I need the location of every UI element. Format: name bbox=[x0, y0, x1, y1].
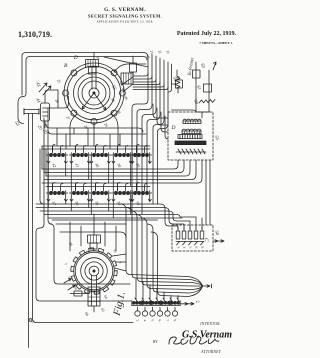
wire battery to circle bbox=[45, 90, 58, 103]
wire right cluster joins bbox=[172, 110, 210, 118]
rim labels bbox=[54, 55, 150, 130]
wire horizontals below B bbox=[46, 124, 146, 134]
dashed box D bbox=[168, 112, 213, 160]
arrow up right bbox=[213, 62, 216, 70]
wire bbox=[48, 108, 130, 284]
footer inventor block bbox=[153, 322, 232, 354]
contact row in D bbox=[178, 149, 205, 154]
wire drops from B rim to bus bbox=[70, 113, 118, 146]
tape guide circles bbox=[135, 311, 140, 316]
tape transmitter body bbox=[132, 301, 136, 305]
right bundle down to bends bbox=[120, 204, 202, 285]
battery 44 bbox=[41, 103, 50, 121]
resistor 60 bbox=[199, 99, 215, 103]
relay 33 bbox=[130, 183, 151, 207]
relay 41 bbox=[69, 145, 90, 169]
wire circleB left down bbox=[48, 90, 68, 108]
left long verticals bbox=[28, 114, 30, 348]
wire battery bottom bbox=[44, 121, 46, 128]
header title text bbox=[88, 7, 162, 25]
dashed box C bbox=[172, 225, 213, 251]
relay 42 bbox=[46, 145, 67, 169]
brush block 55 at B rim bbox=[121, 73, 133, 84]
wire top bundle bends bbox=[132, 53, 148, 151]
jack bar 54 bbox=[24, 110, 39, 114]
brush block on shaft bbox=[86, 60, 99, 68]
hatched bar in D bbox=[178, 135, 202, 139]
component 63 bbox=[193, 70, 201, 78]
vertical feeds row2 bbox=[53, 183, 137, 190]
signature bbox=[169, 336, 219, 344]
arrow 5 pointers bbox=[64, 279, 76, 291]
brush bar 66 bbox=[70, 293, 87, 295]
svg-text:ATTORNEY: ATTORNEY bbox=[200, 350, 221, 354]
wire rim drops A bbox=[70, 222, 116, 251]
stubs to circles bbox=[138, 307, 176, 311]
A shaft down bbox=[92, 275, 97, 306]
cable converge arrow bbox=[203, 284, 212, 288]
wire fan block to bundle bbox=[133, 64, 172, 92]
wire second top bbox=[24, 57, 148, 97]
svg-text:D: D bbox=[171, 125, 176, 131]
wire rim right to bundle bbox=[114, 64, 146, 92]
solid bar in D bbox=[175, 141, 206, 145]
printer rail wires bbox=[196, 62, 209, 112]
relay 35 bbox=[89, 183, 110, 207]
svg-text:SECRET SIGNALING SYSTEM.: SECRET SIGNALING SYSTEM. bbox=[88, 14, 162, 19]
relay 37 bbox=[46, 183, 67, 207]
relay 38 bbox=[130, 145, 151, 169]
wire bundle b5 bbox=[153, 60, 164, 150]
svg-text:G.S.Vernam: G.S.Vernam bbox=[182, 330, 232, 341]
wire bundle b6 bbox=[158, 62, 169, 150]
svg-text:G. S. VERNAM.: G. S. VERNAM. bbox=[104, 7, 146, 13]
wire left vertical x40 bbox=[40, 149, 44, 204]
distributor B outer rim bbox=[64, 63, 124, 123]
brush arm radial bbox=[82, 93, 106, 110]
wire top long bbox=[22, 53, 143, 96]
wire row2 pin drops bbox=[48, 202, 130, 218]
verticals through rows bbox=[132, 150, 158, 214]
wire bundle b3 bbox=[142, 56, 156, 150]
wire shaft A up bbox=[93, 214, 95, 218]
wire inter-row verticals bbox=[48, 164, 130, 190]
coil row1 in D bbox=[183, 119, 201, 121]
component 61 62 bbox=[204, 84, 212, 92]
relay row 2 bbox=[46, 183, 151, 207]
circle pin labels bbox=[135, 319, 177, 323]
relay 40 bbox=[89, 145, 110, 169]
43 arrows bbox=[39, 83, 51, 95]
rings A bbox=[75, 252, 113, 290]
relay row 1 bbox=[46, 145, 151, 169]
svg-text:D: D bbox=[73, 56, 78, 61]
shaft of B bbox=[92, 67, 96, 89]
rim contact circles bbox=[63, 70, 126, 125]
vertical feeds above row1 bbox=[53, 146, 137, 152]
wire rim stubs A right bbox=[113, 254, 127, 271]
curl at bend bbox=[29, 319, 32, 322]
A top brush bbox=[88, 235, 101, 243]
arrow 58 bbox=[213, 240, 224, 243]
distributor A outer bbox=[74, 251, 115, 292]
relay 36 bbox=[69, 183, 90, 207]
wire bundle b4 bbox=[147, 58, 160, 150]
svg-text:1,310,719.: 1,310,719. bbox=[18, 30, 52, 39]
svg-text:Patented July 22, 1919.: Patented July 22, 1919. bbox=[177, 31, 237, 37]
transmitter arrow bbox=[181, 303, 194, 306]
left mid verticals bbox=[36, 118, 131, 301]
C pin labels bbox=[176, 246, 204, 250]
D box left feed corners bbox=[153, 104, 168, 118]
relay 39 bbox=[111, 145, 132, 169]
coil row2 in D bbox=[182, 129, 201, 131]
wire lower cross buses bbox=[52, 220, 158, 238]
C pins bbox=[178, 227, 202, 231]
right verticals D to C bbox=[206, 160, 210, 225]
transmitter pins bbox=[135, 298, 179, 302]
bundle top labels bbox=[149, 50, 170, 55]
transmitter feeds bbox=[136, 278, 178, 299]
left bracket bbox=[18, 97, 24, 124]
wire drops to relays bbox=[57, 128, 132, 149]
wire 47 diagonal bbox=[104, 54, 152, 150]
relay 34 bbox=[111, 183, 132, 207]
distributor B rings bbox=[74, 73, 115, 114]
wire bbox=[33, 114, 134, 323]
gear teeth bbox=[71, 248, 117, 294]
resistor 46 bbox=[175, 70, 180, 93]
svg-text:INVENTOR.: INVENTOR. bbox=[199, 322, 221, 326]
component 45 bbox=[130, 63, 137, 72]
bus below row 2 bbox=[36, 204, 178, 229]
svg-text:7 SHEETS—SHEET 1.: 7 SHEETS—SHEET 1. bbox=[199, 41, 233, 45]
A labels bbox=[63, 242, 122, 317]
component 59 bbox=[176, 80, 183, 88]
brush 65 bbox=[88, 287, 100, 306]
bus between rows bbox=[42, 160, 178, 169]
